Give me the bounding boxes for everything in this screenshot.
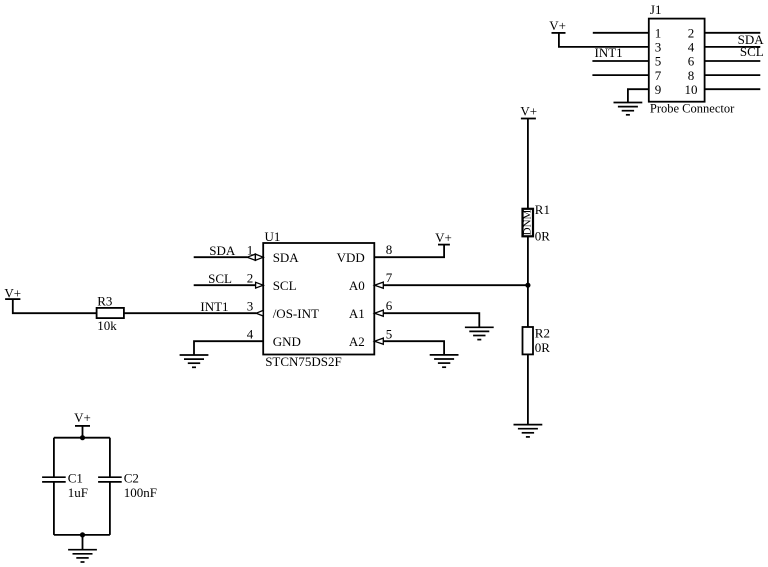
wire R2 bottom to ground [527,354,529,424]
input arrow U1 pin 2 [256,282,264,288]
svg-text:SDA: SDA [209,243,236,258]
wire V+ to R3 left [13,299,97,313]
svg-text:7: 7 [655,68,662,83]
svg-text:4: 4 [688,40,695,55]
svg-text:1uF: 1uF [68,485,88,500]
wire J1 pin 5 stub [592,60,648,62]
svg-text:0R: 0R [535,340,551,355]
svg-text:SCL: SCL [740,44,764,59]
ground (C1/C2 bottom) [68,550,97,562]
power symbol V+ (feeds J1 pin 3) [549,18,566,33]
wire U1 pin 5 (A2) to ground [383,341,444,355]
svg-text:/OS-INT: /OS-INT [273,306,319,321]
capacitor C2 body [98,477,122,482]
wire U1 pin 7 (A0) to R1/R2 junction [383,284,528,286]
wire top rail to C1 [53,438,55,478]
svg-text:U1: U1 [265,229,281,244]
input arrow U1 pin 6 [375,310,384,316]
connector J1 body [649,19,705,102]
wire U1 pin 2 stub (SCL) [194,284,256,286]
wire top rail C1-C2 [54,437,110,439]
svg-text:A1: A1 [349,306,365,321]
svg-text:0R: 0R [535,229,551,244]
wire bottom rail C1-C2 [54,534,110,536]
svg-text:1: 1 [655,26,662,41]
input arrow U1 pin 5 [375,338,384,344]
svg-text:5: 5 [386,327,393,342]
bidirectional arrow U1 pin 1 [247,254,263,260]
svg-text:4: 4 [247,327,254,342]
wire V+ to top rail [82,426,84,438]
wire U1 pin 6 (A1) to ground [383,313,479,327]
wire J1 pin 2 (SDA) [705,32,761,34]
ground (U1 pin 5 A2) [430,355,459,367]
wire C1 to bottom rail [53,482,55,535]
wire U1 pin 4 to ground [194,341,263,355]
svg-text:2: 2 [688,26,695,41]
svg-text:6: 6 [386,298,393,313]
output arrow U1 pin 3 [256,310,263,316]
svg-text:DNM: DNM [522,209,534,235]
svg-text:C2: C2 [124,471,139,486]
svg-text:A2: A2 [349,334,365,349]
svg-text:J1: J1 [650,2,662,17]
wire V+ to J1 pin 3 [559,33,649,47]
svg-text:2: 2 [247,271,254,286]
wire J1 pin 7 stub [592,74,648,76]
power symbol V+ (C1/C2 top) [74,410,91,426]
power symbol V+ (feeds R3) [4,285,21,300]
svg-text:STCN75DS2F: STCN75DS2F [265,354,342,369]
wire V+ to R1 top [527,119,529,209]
svg-text:INT1: INT1 [595,45,623,60]
svg-text:SCL: SCL [273,278,297,293]
svg-text:R1: R1 [535,202,550,217]
input arrow U1 pin 7 [375,282,384,288]
capacitor C1 body [42,477,66,482]
resistor R3 body [97,308,124,318]
svg-text:10: 10 [685,82,698,97]
wire U1 pin 1 stub (SDA) [194,256,248,258]
svg-text:Probe Connector: Probe Connector [650,102,735,116]
svg-text:8: 8 [688,68,695,83]
svg-text:GND: GND [273,334,301,349]
junction node top rail [80,435,85,440]
power symbol V+ (R1 top) [520,103,537,118]
svg-text:100nF: 100nF [124,485,157,500]
ground (U1 pin 4) [180,355,209,367]
svg-text:10k: 10k [97,318,117,333]
svg-text:7: 7 [386,270,393,285]
svg-text:VDD: VDD [337,250,365,265]
svg-text:C1: C1 [68,471,83,486]
svg-text:9: 9 [655,82,662,97]
svg-text:A0: A0 [349,278,365,293]
svg-text:6: 6 [688,54,695,69]
wire J1 pin 9 to ground [628,89,649,102]
svg-text:8: 8 [386,242,393,257]
svg-text:V+: V+ [435,230,452,245]
svg-text:SCL: SCL [208,271,232,286]
ground (J1 pin 9) [614,103,643,115]
ground (U1 pin 6 A1) [465,327,494,339]
wire J1 pin 6 stub [705,60,761,62]
wire bottom rail to ground [82,535,84,550]
wire top rail to C2 [109,438,111,478]
ground (R2 bottom) [514,425,543,437]
svg-text:SDA: SDA [273,250,300,265]
wire C2 to bottom rail [109,482,111,535]
svg-text:3: 3 [655,40,662,55]
wire J1 pin 8 stub [705,74,761,76]
wire J1 pin 1 stub [593,32,649,34]
IC U1 body [263,243,374,355]
resistor R1 body (DNM) [522,209,534,237]
svg-text:V+: V+ [4,285,21,300]
wire U1 pin 8 to V+ [374,245,444,258]
svg-text:INT1: INT1 [200,299,228,314]
svg-text:R2: R2 [535,326,550,341]
svg-text:V+: V+ [549,18,566,33]
resistor R2 body [523,327,534,354]
wire R1 bottom to R2 top [527,236,529,327]
wire J1 pin 10 stub [705,88,761,90]
wire R3 to U1 pin 3 [124,312,257,314]
svg-text:V+: V+ [74,410,91,425]
svg-text:R3: R3 [97,294,112,309]
junction node A0/R1/R2 [525,283,530,288]
svg-text:V+: V+ [520,103,537,118]
wire J1 pin 4 (SCL) [705,46,761,48]
junction node bottom rail [80,532,85,537]
svg-text:3: 3 [247,299,254,314]
power symbol V+ (U1 VDD) [435,230,452,245]
svg-text:5: 5 [655,54,662,69]
